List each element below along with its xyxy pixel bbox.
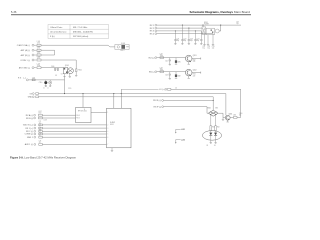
wire p5 (42, 136, 106, 138)
connector d2 (34, 127, 36, 129)
svg-text:Uncontrolled use: Uncontrolled use (50, 31, 67, 34)
transistor Q101 block (62, 68, 73, 74)
wire p3 (42, 130, 106, 132)
wire W1 (157, 24, 241, 26)
diode CR1 dark (175, 58, 177, 61)
transistor Q202 (185, 69, 192, 76)
tap to box2 left (113, 94, 115, 109)
inductor L36 (39, 144, 43, 146)
wire L3 (41, 54, 55, 56)
inductor L31 (39, 124, 43, 126)
svg-text:Figure 5-9. Low Band 29.7-42 M: Figure 5-9. Low Band 29.7-42 MHz Receive… (10, 155, 77, 159)
svg-text:.01: .01 (39, 142, 41, 144)
wire IF- (164, 107, 209, 114)
filter FL101 (115, 45, 129, 50)
off-page flag 2 (175, 139, 185, 143)
svg-text:GND: GND (28, 97, 33, 99)
wire VCC long (39, 94, 226, 116)
svg-text:120n: 120n (160, 55, 163, 57)
svg-text:ANT (A) (-): ANT (A) (-) (21, 49, 31, 52)
off-page flag 1 (175, 129, 185, 133)
svg-text:ANT GND (-): ANT GND (-) (19, 67, 31, 70)
inductor L108 (38, 117, 42, 119)
svg-text:220: 220 (193, 75, 196, 77)
svg-text:62p: 62p (184, 40, 187, 42)
svg-text:F (k): F (k) (50, 36, 55, 38)
svg-text:CR2: CR2 (178, 75, 181, 77)
svg-text:Q301: Q301 (229, 113, 233, 115)
wire W4 (157, 34, 213, 35)
connector v1 (32, 93, 34, 95)
svg-text:Q101: Q101 (65, 65, 69, 67)
svg-text:FL101: FL101 (121, 43, 125, 45)
mixer right to Q301 (218, 113, 225, 117)
wire W2 (157, 27, 202, 29)
svg-text:10p: 10p (239, 115, 242, 117)
output route to W1 (219, 25, 221, 31)
svg-text:L301: L301 (233, 114, 236, 116)
svg-text:R101: R101 (78, 70, 82, 72)
svg-text:J1 ANT LNA (+): J1 ANT LNA (+) (17, 44, 31, 47)
svg-text:VDD 5V (+): VDD 5V (+) (23, 125, 33, 127)
connector d6 (34, 144, 36, 146)
box1 to box2 wire (91, 112, 107, 114)
svg-text:GND 1: GND 1 (27, 137, 33, 139)
grounds under diodes (210, 135, 217, 143)
svg-text:RX A (+): RX A (+) (26, 114, 34, 117)
svg-text:RX 3: RX 3 (150, 31, 154, 33)
connector d5 (34, 136, 36, 138)
transistor Q201 (185, 55, 192, 62)
svg-text:.01: .01 (39, 132, 41, 134)
wire LO long (171, 89, 241, 117)
svg-text:C41: C41 (165, 61, 168, 63)
tap W1 to box (202, 25, 204, 27)
svg-text:L-202: L-202 (181, 139, 185, 141)
svg-text:RX 4: RX 4 (150, 33, 154, 35)
inductor L106 on RX line (32, 79, 35, 81)
wire c1 (157, 57, 186, 59)
connector J201 right of filter (215, 29, 219, 33)
svg-text:RX 2 (-): RX 2 (-) (26, 131, 33, 133)
shunt cap C41 (169, 58, 171, 65)
inductor L33 (39, 130, 43, 132)
vertical from Q101 down to VCC line (64, 76, 66, 93)
Q301 output inductor L301 (230, 116, 233, 118)
connector P1-4 (32, 59, 34, 61)
svg-text:C8: C8 (61, 73, 63, 75)
svg-text:RX 1 (+): RX 1 (+) (26, 128, 34, 130)
connector d4 (34, 133, 36, 135)
svg-text:RX B: RX B (76, 118, 79, 120)
output wire (192, 58, 201, 60)
circuit 1 (149, 54, 201, 65)
connector LO (165, 88, 167, 90)
grounds under Q101 (63, 73, 71, 77)
svg-text:220: 220 (193, 61, 196, 63)
shunt cap C107 (57, 68, 59, 71)
svg-text:Official Parts: Official Parts (50, 26, 63, 29)
svg-text:12p: 12p (208, 47, 211, 49)
connector P1-3 (32, 54, 34, 56)
inductor L202 (160, 71, 164, 73)
ground under Q202 (188, 76, 190, 79)
box2 bottom ground (111, 148, 113, 152)
svg-text:RX 1: RX 1 (150, 25, 154, 27)
connector P1-5 (32, 67, 34, 69)
svg-text:RX (-): RX (-) (18, 78, 26, 80)
svg-text:RX B (-): RX B (-) (26, 118, 33, 120)
wire IF+ (164, 99, 214, 101)
inductor L111 (36, 96, 39, 98)
svg-text:R62: R62 (217, 127, 220, 129)
tap to box2 right / LO feed (120, 89, 122, 108)
inductor L310 (168, 88, 171, 90)
svg-text:12p: 12p (203, 47, 206, 49)
diode CR2 dark (175, 72, 177, 75)
shunt caps C21-C25 (174, 25, 202, 44)
svg-text:AUX 1 (-): AUX 1 (-) (25, 143, 33, 146)
svg-text:100n: 100n (38, 112, 41, 114)
svg-text:62p: 62p (197, 40, 200, 42)
2-line labels under filter (203, 46, 215, 50)
notes table (48, 25, 109, 39)
connector IF+ (162, 100, 164, 102)
inductor L105 (37, 67, 41, 69)
svg-text:62p: 62p (177, 40, 180, 42)
shunt cap C106 on L5 (54, 68, 56, 71)
svg-text:U201: U201 (204, 22, 208, 24)
connector a2 (34, 117, 36, 119)
svg-text:MF: 7.5-8 GHz: MF: 7.5-8 GHz (73, 27, 87, 29)
wire L1 to filter (41, 45, 115, 47)
svg-text:C0: C0 (43, 88, 45, 90)
inductor L102 (37, 49, 41, 51)
svg-text:U301: U301 (110, 124, 114, 126)
shunt cap C43 (169, 72, 171, 79)
wire p4 (42, 133, 106, 135)
svg-text:CONN (-): CONN (-) (25, 134, 34, 136)
svg-text:RX IF (-): RX IF (-) (154, 107, 162, 109)
svg-text:62p: 62p (190, 40, 193, 42)
inductor L110 (36, 93, 39, 95)
svg-text:C106: C106 (51, 66, 55, 68)
connector a1 (34, 114, 36, 116)
wire p6 (42, 143, 106, 145)
svg-text:5-36: 5-36 (11, 11, 17, 14)
svg-text:120n: 120n (37, 53, 41, 55)
resistor R61 (210, 126, 212, 131)
svg-text:Q202: Q202 (193, 69, 197, 71)
svg-text:C43: C43 (165, 75, 168, 77)
capacitor C111 (49, 80, 52, 87)
transistor Q301 (225, 115, 230, 120)
inductor L103 (37, 54, 41, 56)
RX (-) line (29, 79, 65, 81)
svg-text:120n: 120n (160, 69, 163, 71)
svg-text:.01: .01 (39, 126, 41, 128)
svg-text:FILTER: FILTER (204, 24, 209, 26)
svg-text:C110: C110 (39, 82, 43, 84)
resistor R101 (75, 69, 77, 76)
svg-text:587 800 (offset): 587 800 (offset) (73, 35, 89, 38)
svg-text:GND 2: GND 2 (120, 50, 124, 52)
diode D2 (214, 133, 217, 136)
svg-text:L108: L108 (44, 120, 47, 122)
connector P1-2 (32, 49, 34, 51)
connector b4 (155, 33, 157, 35)
svg-text:490 000 - 10,000 Hz: 490 000 - 10,000 Hz (73, 32, 93, 34)
tap to box1 (82, 94, 84, 108)
svg-text:CONN 1 (-): CONN 1 (-) (20, 60, 30, 62)
junction dots long lines (64, 93, 122, 94)
svg-text:C115: C115 (68, 88, 71, 90)
svg-text:ANT (B) (-): ANT (B) (-) (21, 54, 31, 57)
svg-text:INJ (+): INJ (+) (149, 57, 155, 59)
svg-text:120n: 120n (37, 48, 41, 50)
svg-text:Q201: Q201 (193, 55, 197, 57)
box1 input wire A (42, 114, 75, 116)
inductor L35 (39, 136, 43, 138)
circuit 2 (149, 68, 201, 79)
ground under Q201 (188, 62, 190, 64)
capacitor C110 (dark) (44, 80, 47, 87)
diode D1 (209, 133, 212, 136)
output wire (192, 72, 201, 74)
svg-text:L106: L106 (32, 77, 35, 79)
connector d1 (34, 124, 36, 126)
filter bottom drops + grounds (203, 34, 214, 45)
svg-text:RX 2: RX 2 (150, 28, 154, 30)
wire p2 (42, 127, 106, 129)
svg-text:MIX: MIX (215, 108, 218, 110)
svg-text:CR1: CR1 (178, 61, 181, 63)
svg-text:R61: R61 (212, 127, 215, 129)
svg-text:C1: C1 (47, 88, 49, 90)
svg-text:12p: 12p (236, 23, 239, 25)
inductor L104 (37, 59, 41, 61)
connector b2 (155, 27, 157, 29)
connector b1 (155, 24, 157, 26)
inductor L32 (39, 127, 43, 129)
connector b3 (155, 30, 157, 32)
svg-text:Schematic Diagrams, Overlays M: Schematic Diagrams, Overlays Main Board (190, 10, 251, 14)
resistor R62 (215, 126, 217, 131)
LO horizontal from box2 tap (121, 88, 158, 90)
connector v2 (32, 96, 34, 98)
svg-text:R3: R3 (207, 145, 209, 147)
svg-text:LO (+): LO (+) (159, 89, 165, 91)
svg-text:RF SW U101: RF SW U101 (78, 110, 87, 112)
box1 input wire B (42, 117, 75, 119)
wire GND long (39, 97, 214, 110)
svg-text:INJ (-): INJ (-) (149, 72, 155, 74)
wire L2 (41, 50, 55, 55)
svg-text:R9: R9 (55, 75, 57, 77)
wire c2 (157, 71, 186, 73)
dual diode package CR301 (202, 131, 221, 141)
mixer bottom drops to resistors (210, 115, 217, 131)
connector IF- (162, 106, 164, 108)
connector c2 (155, 71, 157, 73)
svg-text:R4: R4 (214, 145, 216, 147)
svg-text:.01: .01 (39, 135, 41, 137)
connector d3 (34, 130, 36, 132)
connector RX- (26, 79, 28, 81)
svg-text:12p: 12p (212, 47, 215, 49)
wire p1 (42, 124, 106, 126)
connector c1 (155, 57, 157, 59)
svg-text:.01: .01 (39, 123, 41, 125)
inductor L107 (38, 114, 42, 116)
inductor L201 (160, 57, 164, 59)
svg-text:T301: T301 (207, 108, 211, 110)
inductor L101 (37, 44, 41, 46)
junction dots bus (175, 25, 204, 32)
wire L4 (41, 60, 76, 69)
svg-text:L-201: L-201 (181, 129, 185, 131)
svg-text:120n: 120n (37, 43, 41, 45)
header rule (11, 13, 251, 16)
ground under Q301 (227, 120, 229, 122)
svg-text:120n: 120n (37, 65, 41, 67)
wire L5 (41, 67, 62, 69)
svg-text:RX IF (+): RX IF (+) (153, 100, 161, 102)
inductor L34 (39, 133, 43, 135)
wire W3 (157, 30, 202, 32)
connector P1-1 (32, 44, 34, 46)
cap C62 (222, 117, 224, 120)
svg-text:120n: 120n (37, 58, 41, 60)
